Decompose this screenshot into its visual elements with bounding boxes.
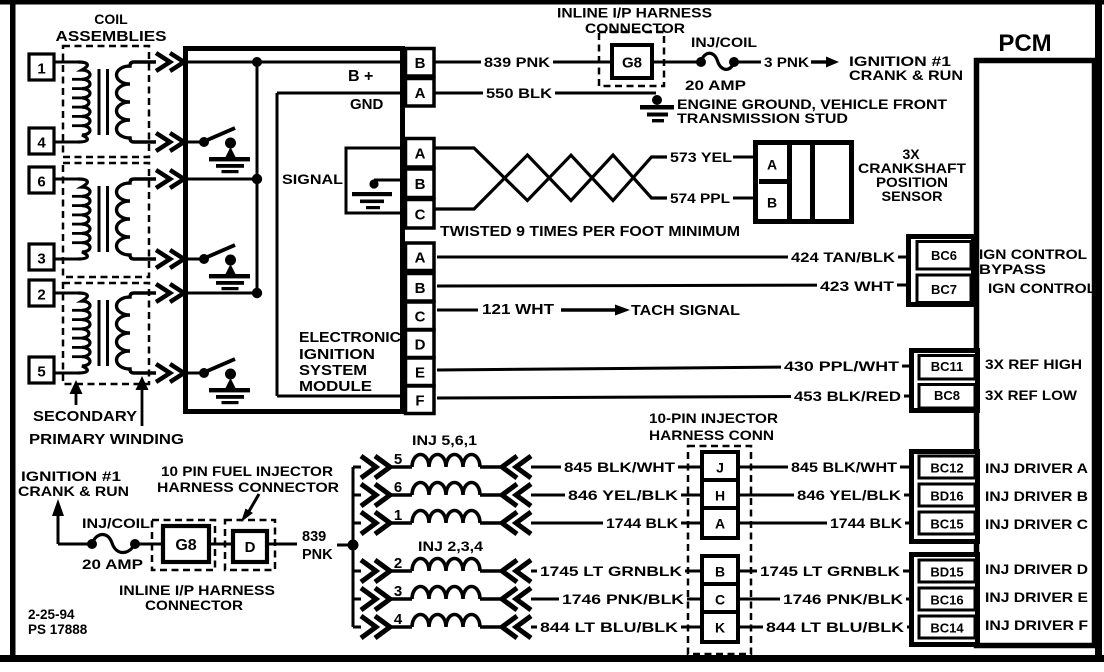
svg-text:INJ DRIVER E: INJ DRIVER E — [985, 589, 1088, 605]
svg-text:HARNESS CONN: HARNESS CONN — [649, 427, 774, 443]
svg-text:INLINE I/P HARNESS: INLINE I/P HARNESS — [119, 582, 275, 598]
module pin B (signal) — [406, 169, 435, 198]
wire row coil5 to switch — [188, 372, 204, 375]
signal ground dot — [369, 179, 378, 188]
svg-text:1746 PNK/BLK: 1746 PNK/BLK — [562, 592, 684, 607]
svg-text:4: 4 — [37, 135, 46, 152]
chevron arrow row 3 — [156, 250, 170, 268]
svg-text:1: 1 — [37, 61, 45, 78]
signal ground box — [346, 148, 406, 213]
svg-text:424 TAN/BLK: 424 TAN/BLK — [791, 250, 895, 265]
border frame right — [1095, 0, 1102, 659]
wire injector 1 to harness conn — [531, 522, 701, 525]
svg-text:COIL: COIL — [94, 11, 128, 27]
svg-text:ELECTRONIC: ELECTRONIC — [299, 330, 402, 346]
dashed 10-pin injector harness conn — [688, 446, 751, 654]
chevron arrow row 1 — [156, 53, 170, 71]
wire row coil4 to switch — [188, 141, 204, 144]
chevron arrows injector 6 left — [361, 484, 376, 506]
svg-text:MODULE: MODULE — [299, 379, 372, 395]
wire terminal 1 to primary T1 — [54, 61, 80, 64]
wire injector 3 to harness conn — [531, 598, 701, 601]
wire 573 YEL twisted pair (from pin A) — [434, 148, 668, 201]
module pin A (output) — [406, 243, 435, 271]
terminal BD15 — [919, 560, 975, 582]
wire label 430 PPL/WHT — [781, 358, 902, 375]
svg-text:G8: G8 — [175, 537, 196, 554]
border frame top — [0, 0, 1104, 5]
svg-text:A: A — [415, 250, 426, 267]
svg-text:INJ/COIL: INJ/COIL — [82, 515, 151, 531]
wire 839 PNK stub — [337, 544, 353, 547]
wire terminal 5 to primary T3 — [54, 372, 80, 375]
PCM connector housing BC12/BD16/BC15 — [912, 452, 978, 542]
engine ground symbol — [652, 95, 662, 105]
svg-text:1744 BLK: 1744 BLK — [606, 516, 678, 531]
primary winding ticks T1 — [72, 78, 82, 81]
connector G8 (bottom) — [163, 526, 209, 562]
svg-text:TWISTED 9 TIMES PER FOOT MINIM: TWISTED 9 TIMES PER FOOT MINIMUM — [440, 224, 740, 240]
harness pin H — [702, 480, 738, 510]
wire G8 to fuse — [652, 61, 698, 64]
dashed inline I/P connector (bottom) — [152, 520, 215, 570]
wire label 1746 PNK/BLK — [559, 591, 687, 608]
svg-text:121 WHT: 121 WHT — [482, 302, 554, 318]
wire 121 WHT — [437, 309, 478, 312]
svg-text:SENSOR: SENSOR — [882, 188, 943, 204]
chevron arrows injector 1 right — [502, 512, 517, 534]
driver switch at row 142 — [199, 137, 209, 147]
chevron arrow row 5 — [156, 364, 170, 382]
svg-text:839: 839 — [302, 529, 326, 545]
core line 1 T2 — [98, 186, 101, 252]
terminal BD16 — [919, 484, 975, 506]
module pin E (output) — [406, 358, 435, 386]
wire injector 6 to harness conn — [531, 494, 701, 497]
svg-text:C: C — [715, 592, 725, 608]
svg-text:PS 17888: PS 17888 — [28, 622, 88, 637]
wire label 423 WHT — [817, 278, 897, 295]
driver switch at row 373 — [199, 368, 209, 378]
svg-text:BC15: BC15 — [930, 517, 963, 532]
terminal BC16 — [919, 588, 975, 610]
wire label 845 BLK/WHT — [561, 459, 678, 476]
svg-text:2: 2 — [394, 555, 402, 572]
PCM connector housing BC6/BC7 — [909, 237, 974, 305]
secondary winding T3 — [117, 293, 156, 373]
wire 573 to sensor pin A — [733, 156, 755, 159]
wire 574 to sensor pin B — [733, 197, 755, 200]
svg-text:3: 3 — [394, 583, 402, 600]
chevron arrows injector 4 left — [361, 616, 376, 638]
module pin D (output) — [406, 330, 435, 358]
svg-text:D: D — [245, 539, 256, 556]
wire 430 PPL/WHT — [437, 366, 911, 370]
svg-text:3: 3 — [37, 251, 45, 268]
connector D — [233, 531, 267, 562]
wire terminal 3 to primary T2 — [54, 258, 80, 261]
svg-text:10 PIN FUEL INJECTOR: 10 PIN FUEL INJECTOR — [161, 463, 333, 479]
svg-text:BC7: BC7 — [931, 282, 957, 297]
svg-text:A: A — [415, 146, 426, 163]
wire signal B to ground — [374, 179, 404, 182]
wire terminal 2 to primary T3 — [54, 292, 80, 295]
svg-text:845 BLK/WHT: 845 BLK/WHT — [791, 460, 898, 475]
injector coil 4 — [412, 615, 480, 628]
chevron arrow row 4 — [156, 133, 170, 151]
svg-text:846 YEL/BLK: 846 YEL/BLK — [797, 488, 901, 503]
wire 839 PNK to G8 — [434, 61, 612, 64]
svg-text:INJ DRIVER F: INJ DRIVER F — [985, 617, 1089, 633]
wire label 573 YEL — [667, 149, 735, 166]
svg-text:TACH SIGNAL: TACH SIGNAL — [631, 303, 740, 319]
wire row coil6 — [188, 178, 257, 181]
injector coil 6 — [412, 482, 480, 495]
wire label 1746 PNK/BLK — [780, 591, 906, 608]
wire out of injector coil 6 — [480, 493, 503, 496]
harness pin A — [702, 508, 738, 538]
svg-text:6: 6 — [37, 174, 45, 191]
svg-text:839 PNK: 839 PNK — [484, 55, 550, 70]
svg-text:BYPASS: BYPASS — [979, 261, 1046, 277]
svg-text:B +: B + — [348, 68, 373, 85]
svg-text:IGN CONTROL: IGN CONTROL — [988, 280, 1096, 296]
module pin A (power) — [406, 79, 435, 107]
wire label 453 BLK/RED — [791, 388, 904, 405]
svg-text:2: 2 — [37, 287, 45, 304]
wire label 844 LT BLU/BLK — [537, 619, 681, 636]
terminal BC7 — [917, 275, 971, 303]
svg-text:INJ/COIL: INJ/COIL — [691, 34, 757, 50]
border frame left — [10, 0, 16, 659]
wire C to PCM — [738, 598, 911, 601]
wire J to PCM — [738, 466, 911, 469]
svg-text:844 LT BLU/BLK: 844 LT BLU/BLK — [540, 620, 678, 635]
chevron arrows injector 1 left — [361, 512, 376, 534]
wire 574 PPL twisted pair (from pin C) — [434, 155, 668, 209]
wire A to PCM — [738, 522, 911, 525]
svg-text:SYSTEM: SYSTEM — [299, 363, 367, 379]
chevron arrows injector 5 left — [361, 456, 376, 478]
wire out of injector coil 4 — [480, 625, 503, 628]
svg-text:C: C — [415, 207, 426, 224]
border frame bottom — [0, 655, 1104, 662]
primary winding T3 — [78, 293, 90, 373]
arrow up to ignition 1 crank&run — [52, 499, 64, 516]
svg-text:GND: GND — [350, 96, 384, 113]
wire injector 5 to harness conn — [531, 466, 701, 469]
wire 453 BLK/RED — [437, 396, 911, 398]
wire into injector coil 6 — [389, 493, 412, 496]
signal ground symbol — [352, 192, 392, 196]
wire label 844 LT BLU/BLK — [763, 619, 907, 636]
core line 1 T3 — [98, 300, 101, 366]
wire label 1744 BLK — [603, 515, 681, 532]
terminal BC14 — [919, 616, 975, 638]
wire H to PCM — [738, 494, 911, 497]
wire row coil3 to switch — [188, 258, 204, 261]
wire out of injector coil 1 — [480, 521, 503, 524]
ground for switch row 259 — [209, 274, 250, 278]
svg-text:550 BLK: 550 BLK — [486, 86, 552, 101]
core line 2 T2 — [106, 186, 109, 252]
svg-text:C: C — [415, 309, 426, 326]
svg-text:A: A — [715, 516, 725, 532]
wire label 3 PNK — [761, 54, 812, 71]
svg-text:H: H — [715, 488, 725, 504]
wire label 846 YEL/BLK — [794, 487, 904, 504]
harness pin J — [702, 452, 738, 482]
wire out of injector coil 2 — [480, 569, 503, 572]
injector coil 5 — [412, 455, 480, 468]
wire into injector coil 2 — [389, 569, 412, 572]
svg-text:BC16: BC16 — [930, 593, 963, 608]
wire bus to injector 5 — [353, 466, 361, 469]
svg-text:573 YEL: 573 YEL — [670, 150, 732, 165]
svg-text:INJ DRIVER C: INJ DRIVER C — [985, 516, 1088, 532]
svg-text:INJ DRIVER A: INJ DRIVER A — [985, 460, 1088, 476]
secondary winding T1 — [117, 62, 156, 142]
svg-text:PNK: PNK — [302, 547, 333, 563]
svg-text:846 YEL/BLK: 846 YEL/BLK — [568, 488, 678, 503]
svg-text:SIGNAL: SIGNAL — [282, 171, 344, 187]
svg-text:CONNECTOR: CONNECTOR — [585, 20, 685, 36]
arrow to ignition 1 — [811, 60, 826, 63]
wire terminal 6 to primary T2 — [54, 178, 80, 181]
PCM connector housing BC11/BC8 — [912, 351, 978, 411]
inner box bottom edge — [277, 395, 405, 398]
chevron arrows injector 3 right — [502, 588, 517, 610]
svg-text:HARNESS CONNECTOR: HARNESS CONNECTOR — [157, 479, 339, 495]
injector coil 2 — [412, 559, 480, 572]
wire label 550 BLK — [483, 85, 555, 102]
svg-text:845 BLK/WHT: 845 BLK/WHT — [564, 460, 676, 475]
svg-text:B: B — [767, 195, 777, 211]
wire 839 PNK injector bus — [352, 467, 355, 627]
svg-text:D: D — [415, 337, 426, 354]
arrow mark secondary winding — [70, 380, 83, 394]
wire row coil2 — [188, 292, 257, 295]
wire to fuse (bottom) — [58, 543, 92, 546]
wire into injector coil 1 — [389, 521, 412, 524]
terminal BC6 — [917, 242, 971, 270]
svg-text:IGN CONTROL: IGN CONTROL — [979, 246, 1087, 262]
terminal BC15 — [919, 512, 975, 534]
wire label 845 BLK/WHT — [788, 459, 900, 476]
junction B+ top — [252, 57, 262, 67]
svg-text:INJ DRIVER B: INJ DRIVER B — [985, 488, 1088, 504]
wire label 1745 LT GRNBLK — [757, 563, 903, 580]
svg-text:1744 BLK: 1744 BLK — [830, 516, 902, 531]
svg-text:CONNECTOR: CONNECTOR — [145, 597, 243, 613]
svg-text:B: B — [415, 280, 426, 297]
connector G8 (top) — [612, 45, 652, 78]
injector coil 3 — [412, 587, 480, 600]
svg-text:844 LT BLU/BLK: 844 LT BLU/BLK — [766, 620, 904, 635]
dashed box coil assembly 2 — [63, 163, 149, 277]
wire K to PCM — [738, 626, 911, 629]
svg-text:CRANK & RUN: CRANK & RUN — [18, 483, 129, 499]
svg-text:1746 PNK/BLK: 1746 PNK/BLK — [783, 592, 903, 607]
svg-text:1745 LT GRNBLK: 1745 LT GRNBLK — [760, 564, 900, 579]
svg-text:F: F — [415, 393, 424, 410]
core line 2 T1 — [106, 69, 109, 135]
wire D to 839 PNK — [267, 543, 297, 546]
inner box left edge — [276, 93, 279, 396]
svg-text:B: B — [715, 564, 725, 580]
dashed box coil assembly 1 — [63, 46, 149, 157]
svg-text:PRIMARY WINDING: PRIMARY WINDING — [29, 431, 184, 448]
module pin B (output) — [406, 274, 435, 302]
module pin A (signal) — [406, 139, 435, 168]
module pin C (signal) — [406, 200, 435, 229]
harness pin K — [702, 612, 738, 642]
dashed box coil assembly 3 — [63, 283, 149, 384]
svg-text:IGNITION #1: IGNITION #1 — [21, 468, 121, 484]
svg-text:BC11: BC11 — [931, 359, 964, 374]
electronic ignition module box — [186, 49, 403, 412]
module pin B (power) — [406, 49, 435, 77]
chevron arrows injector 4 right — [502, 616, 517, 638]
svg-text:574 PPL: 574 PPL — [670, 191, 730, 206]
svg-text:4: 4 — [394, 611, 403, 628]
chevron arrows injector 3 left — [361, 588, 376, 610]
wire label 1745 LT GRNBLK — [537, 563, 685, 580]
sensor connector internal dividers — [787, 145, 792, 219]
svg-text:5: 5 — [394, 451, 402, 468]
wire into injector coil 5 — [389, 465, 412, 468]
wire bus to injector 2 — [353, 570, 361, 573]
svg-text:1: 1 — [394, 507, 402, 524]
chevron arrows injector 2 right — [502, 560, 517, 582]
wire label 1744 BLK — [827, 515, 905, 532]
primary winding T1 — [78, 62, 90, 142]
coil terminal box 3 — [29, 244, 54, 270]
coil terminal box 2 — [29, 280, 54, 306]
wire terminal 4 to primary T1 — [54, 141, 80, 144]
terminal BC12 — [919, 456, 975, 478]
PCM connector housing BD15/BC16/BC14 — [912, 555, 978, 645]
svg-text:3 PNK: 3 PNK — [764, 55, 809, 70]
chevron arrows injector 2 left — [361, 560, 376, 582]
harness pin B — [702, 556, 738, 586]
fuse INJ/COIL 20A (top) — [696, 57, 706, 67]
junction row6 — [252, 174, 262, 184]
wire B+ row coil1 — [188, 61, 405, 64]
svg-text:TRANSMISSION STUD: TRANSMISSION STUD — [677, 110, 848, 126]
svg-text:430 PPL/WHT: 430 PPL/WHT — [784, 359, 900, 374]
chevron arrows injector 5 right — [502, 456, 517, 478]
wire out of injector coil 3 — [480, 597, 503, 600]
svg-text:2-25-94: 2-25-94 — [28, 607, 75, 622]
fuse INJ/COIL 20A (bottom) — [87, 539, 97, 549]
svg-text:E: E — [415, 365, 425, 382]
svg-text:BC6: BC6 — [931, 248, 957, 263]
core line 2 T3 — [106, 300, 109, 366]
wire into injector coil 4 — [389, 625, 412, 628]
svg-text:BC8: BC8 — [934, 388, 960, 403]
svg-text:B: B — [415, 55, 426, 72]
primary winding ticks T2 — [72, 195, 82, 198]
chevron arrows injector 6 right — [502, 484, 517, 506]
svg-text:A: A — [415, 85, 426, 102]
svg-text:20 AMP: 20 AMP — [685, 77, 746, 93]
coil terminal box 5 — [29, 357, 54, 383]
svg-text:INJ 2,3,4: INJ 2,3,4 — [418, 538, 483, 554]
wire label 121 WHT — [479, 300, 557, 318]
coil terminal box 4 — [29, 128, 54, 154]
wire bus to injector 4 — [353, 626, 361, 629]
arrow mark primary winding — [136, 376, 149, 390]
wire injector 4 to harness conn — [531, 626, 701, 629]
svg-text:INJ 5,6,1: INJ 5,6,1 — [412, 432, 477, 448]
wire 423 WHT — [437, 285, 908, 286]
svg-text:J: J — [716, 460, 724, 476]
wire out of injector coil 5 — [480, 465, 503, 468]
terminal BC8 — [919, 385, 975, 409]
wire into injector coil 3 — [389, 597, 412, 600]
dashed inline I/P connector (top) — [599, 32, 664, 86]
wire bus to injector 1 — [353, 522, 361, 525]
wire label 424 TAN/BLK — [788, 249, 898, 266]
driver switch at row 259 — [199, 254, 209, 264]
dashed 10-pin fuel injector connector — [225, 520, 275, 570]
svg-text:SECONDARY: SECONDARY — [33, 408, 137, 425]
ground for switch row 373 — [209, 388, 250, 392]
svg-text:BD16: BD16 — [930, 489, 963, 504]
primary winding T2 — [78, 179, 90, 259]
wire 424 TAN/BLK — [437, 256, 908, 259]
wire B to PCM — [738, 570, 911, 573]
svg-text:20 AMP: 20 AMP — [82, 556, 143, 572]
chevron arrow row 2 — [156, 284, 170, 302]
svg-text:3X REF HIGH: 3X REF HIGH — [985, 356, 1082, 372]
module pin C (output) — [406, 302, 435, 330]
injector coil 1 — [412, 511, 480, 524]
svg-text:6: 6 — [394, 479, 402, 496]
junction injector bus — [348, 540, 359, 551]
primary winding ticks T3 — [72, 309, 82, 312]
harness pin C — [702, 584, 738, 614]
wire B+ vertical bus — [256, 62, 259, 293]
wire GND row / inner box top — [277, 92, 405, 95]
wire G8 to D — [209, 543, 233, 546]
arrow to connector D — [248, 494, 259, 513]
terminal BC11 — [919, 356, 975, 380]
wire injector 2 to harness conn — [531, 570, 701, 573]
svg-text:423 WHT: 423 WHT — [820, 279, 895, 294]
svg-text:BD15: BD15 — [930, 565, 963, 580]
wire bus to injector 6 — [353, 494, 361, 497]
svg-text:BC14: BC14 — [930, 621, 964, 636]
svg-text:B: B — [415, 176, 426, 193]
svg-text:G8: G8 — [622, 55, 642, 72]
junction row2 — [252, 288, 262, 298]
wire 550 BLK to engine ground — [434, 92, 656, 95]
PCM box — [977, 61, 1095, 646]
svg-text:1745 LT GRNBLK: 1745 LT GRNBLK — [540, 564, 682, 579]
svg-text:INJ DRIVER D: INJ DRIVER D — [985, 561, 1088, 577]
module pin F (output) — [406, 386, 435, 414]
wire 3 PNK — [738, 61, 762, 64]
svg-text:INLINE I/P HARNESS: INLINE I/P HARNESS — [557, 5, 712, 21]
wire label 846 YEL/BLK — [565, 487, 681, 504]
ground for switch row 142 — [209, 157, 250, 161]
svg-text:10-PIN INJECTOR: 10-PIN INJECTOR — [649, 410, 778, 426]
svg-text:IGNITION: IGNITION — [299, 347, 375, 363]
wire fuse to G8 (bottom) — [135, 543, 163, 546]
svg-text:5: 5 — [37, 364, 45, 381]
